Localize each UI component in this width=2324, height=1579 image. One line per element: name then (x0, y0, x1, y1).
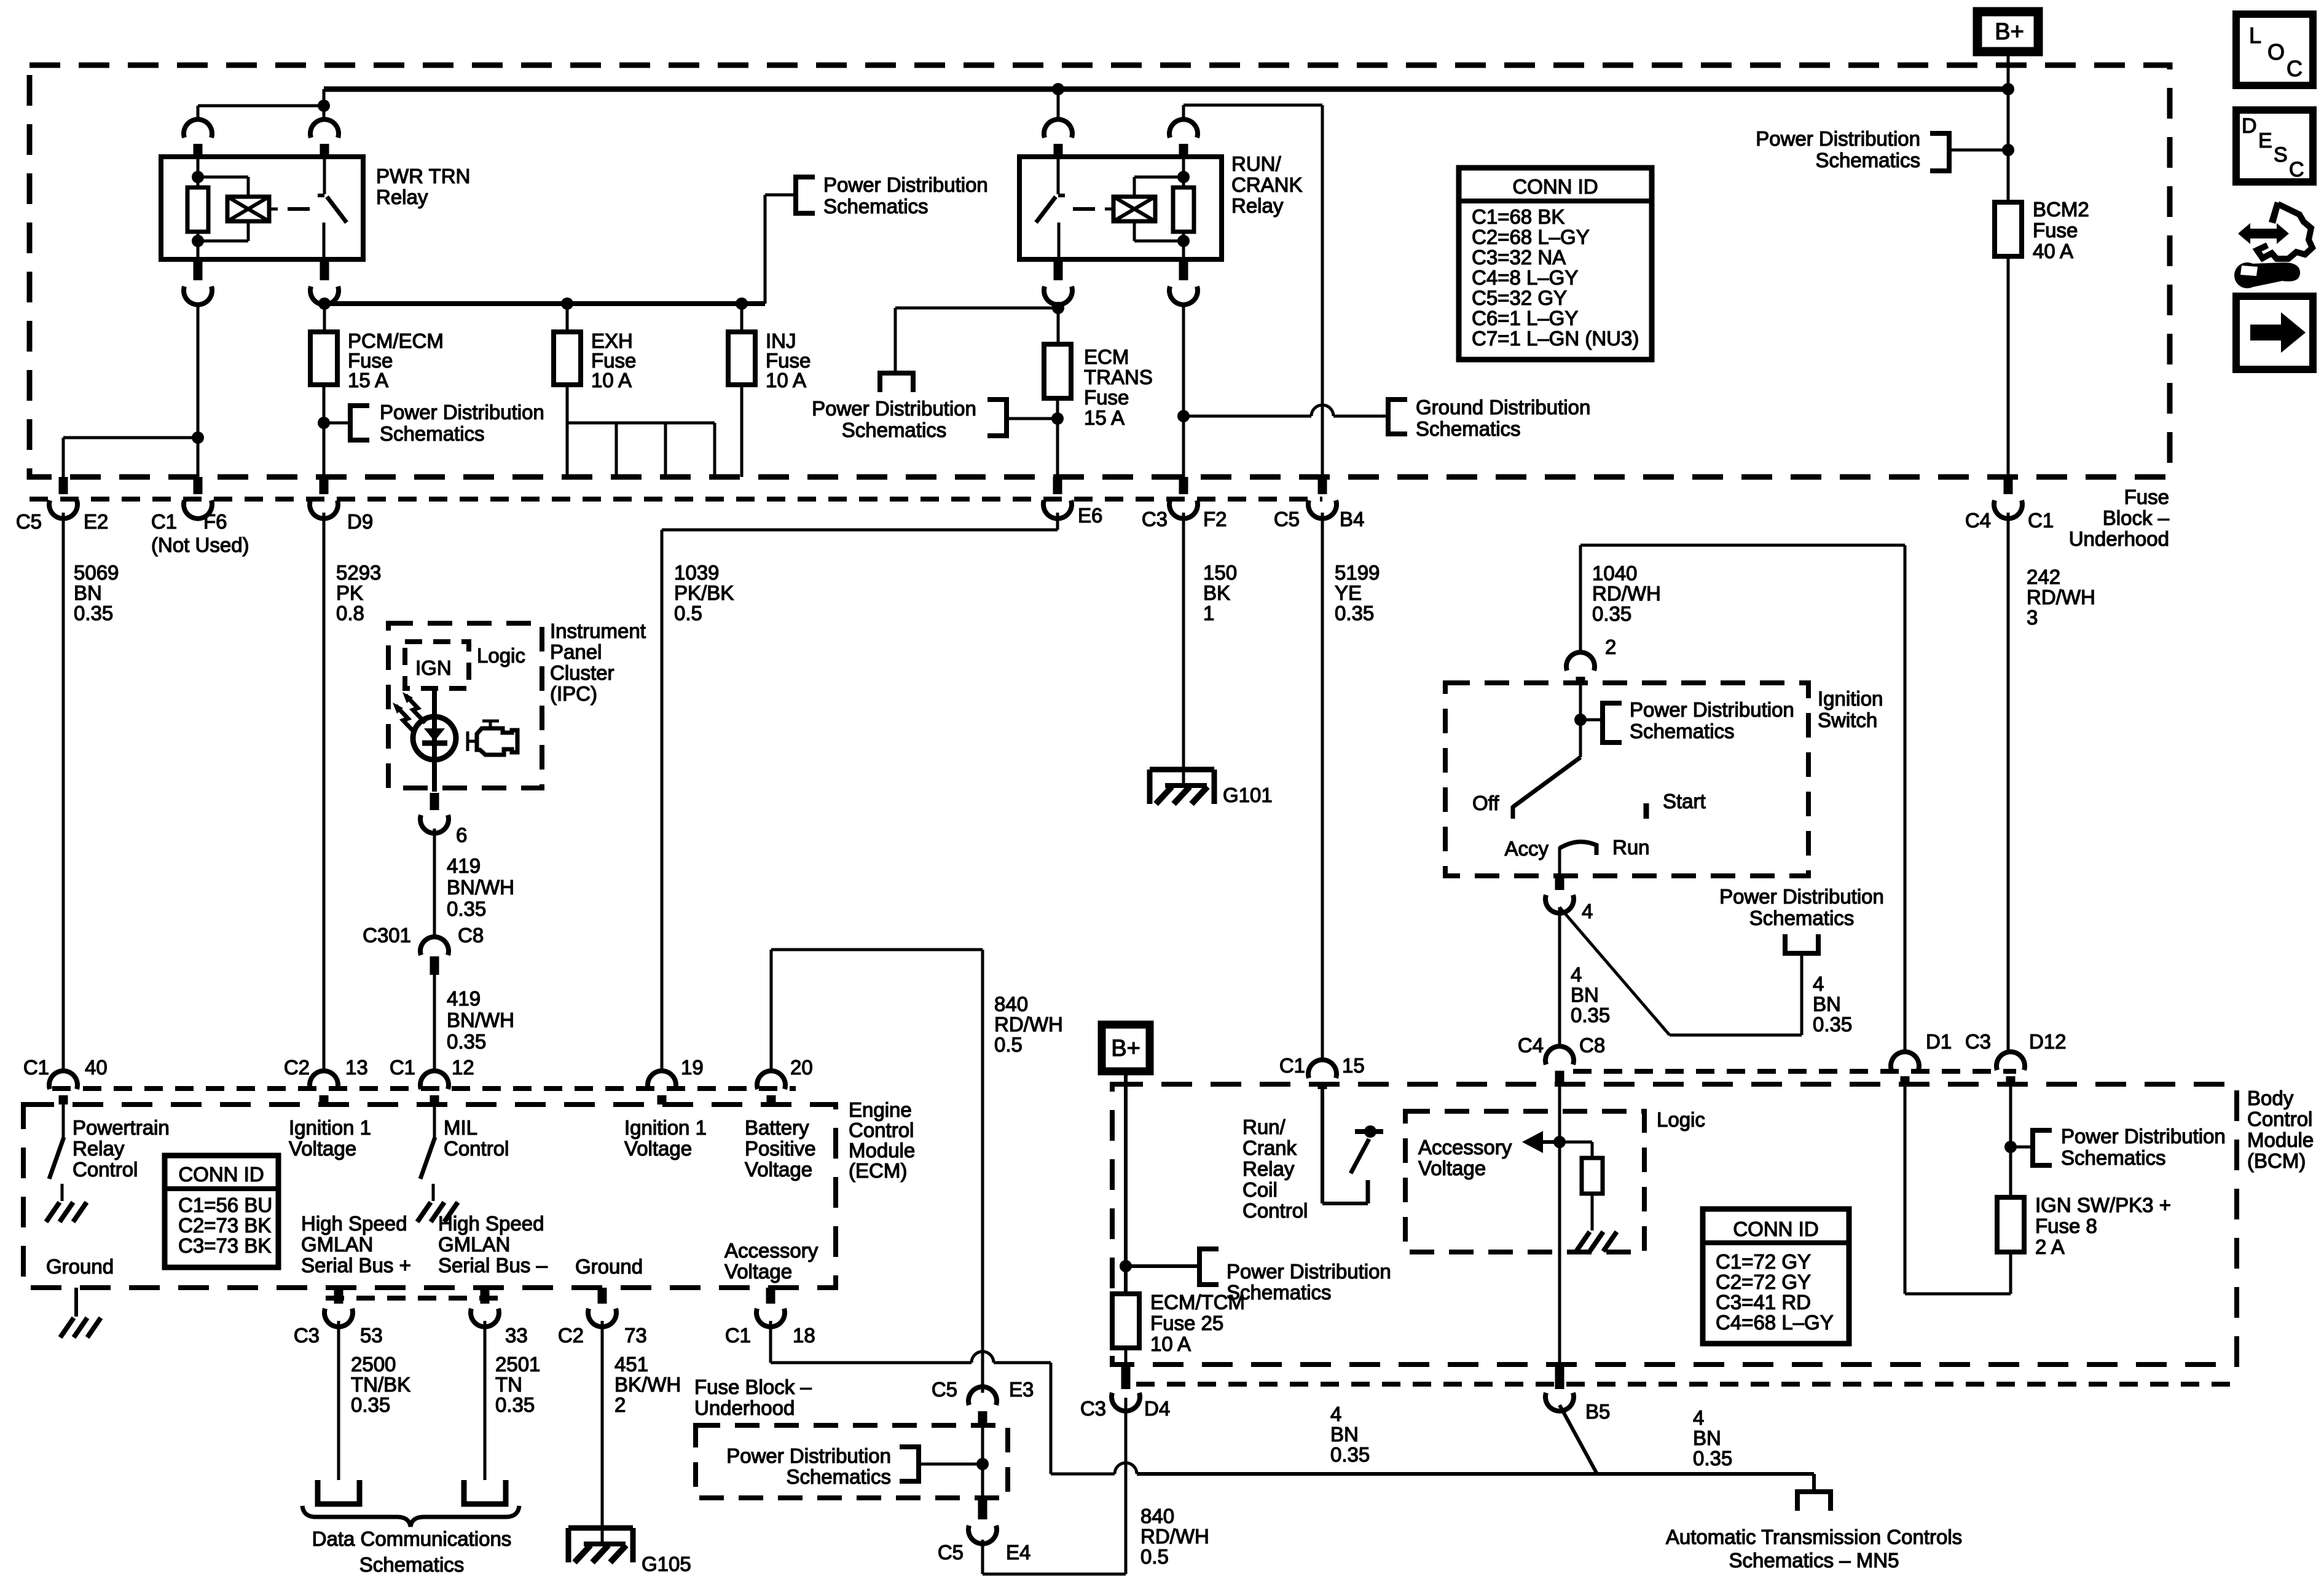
svg-text:Data Communications: Data Communications (312, 1527, 512, 1550)
svg-text:Schematics: Schematics (1416, 417, 1521, 440)
wire INJ fuse to block edge (740, 385, 744, 477)
svg-text:BN: BN (1571, 983, 1599, 1006)
fuse BCM2 40A (1995, 202, 2022, 256)
svg-text:C3=73 BK: C3=73 BK (178, 1234, 271, 1257)
svg-text:Automatic Transmission Control: Automatic Transmission Controls (1666, 1526, 1962, 1548)
svg-text:Ignition 1: Ignition 1 (289, 1116, 371, 1139)
svg-text:Ground: Ground (575, 1255, 643, 1278)
connector C5 E4 (978, 1498, 987, 1519)
wire 5069 BN 0.35 (62, 513, 65, 1069)
svg-text:C2: C2 (284, 1056, 310, 1079)
svg-text:C5=32 GY: C5=32 GY (1472, 286, 1567, 309)
svg-text:2: 2 (1605, 636, 1616, 658)
switch ignition rotor blade (1513, 757, 1580, 807)
terminal (serial bus -) (464, 1480, 506, 1504)
wire accessory voltage through BCM (1558, 1084, 1561, 1367)
svg-text:CONN ID: CONN ID (178, 1163, 264, 1186)
module Instrument Panel Cluster dashed box (388, 623, 542, 788)
svg-text:C3=32 NA: C3=32 NA (1472, 246, 1566, 269)
connector C4 C8 (1545, 1046, 1574, 1065)
wire elbow to PWR TRN relay coil pin (198, 104, 324, 108)
svg-text:0.35: 0.35 (1571, 1004, 1610, 1026)
svg-text:1040: 1040 (1592, 562, 1637, 585)
svg-text:Positive: Positive (745, 1137, 816, 1160)
svg-text:2500: 2500 (351, 1353, 396, 1376)
wire 419 BN/WH 0.35 lower (433, 974, 436, 1071)
svg-text:C1: C1 (151, 510, 177, 533)
svg-text:4: 4 (1571, 963, 1582, 986)
svg-text:Control: Control (73, 1158, 138, 1181)
node EXH fuse tap (561, 297, 573, 310)
ground G105 (568, 1526, 633, 1531)
wire elbow to power distribution callout 1 (764, 195, 767, 304)
wire 5199 YE 0.35 (1321, 513, 1324, 1061)
svg-text:Power Distribution: Power Distribution (812, 397, 976, 420)
connector RUN/CRANK pin top-left (1044, 119, 1072, 138)
svg-text:C8: C8 (1579, 1034, 1605, 1057)
svg-text:2: 2 (614, 1393, 626, 1416)
svg-text:73: 73 (624, 1324, 647, 1347)
svg-text:D: D (2242, 114, 2257, 138)
svg-text:0.35: 0.35 (1592, 602, 1631, 625)
wire INJ fuse drop (740, 304, 744, 332)
wire coil lead RUN/CRANK (1105, 208, 1113, 211)
svg-text:2 A: 2 A (2035, 1235, 2065, 1258)
wire to automatic transmission callout (1812, 1474, 1816, 1492)
wire to power distribution callout (below RUN/CRANK) (895, 307, 1058, 310)
ground G101 (1150, 767, 1214, 773)
svg-text:C4=8 L–GY: C4=8 L–GY (1472, 266, 1578, 289)
brace data communications (302, 1506, 519, 1527)
svg-text:C1: C1 (23, 1056, 49, 1079)
relay PWR TRN box (161, 157, 363, 259)
connector pin 20 (757, 1071, 785, 1089)
icon arrow box (2236, 296, 2313, 369)
svg-text:Control: Control (1242, 1199, 1308, 1222)
module Engine Control Module dashed box (23, 1105, 836, 1288)
svg-text:Underhood: Underhood (2069, 527, 2169, 550)
wire B+ bus (324, 87, 2008, 92)
connector face dashes ECM top (52, 1086, 796, 1091)
svg-text:Relay: Relay (1231, 194, 1284, 217)
svg-text:Power Distribution: Power Distribution (1719, 885, 1884, 908)
connector 2 (ignition switch) (1566, 652, 1595, 671)
terminal (serial bus +) (318, 1480, 359, 1504)
svg-text:BN/WH: BN/WH (447, 876, 514, 899)
svg-text:C4: C4 (1518, 1034, 1544, 1057)
module Ignition Switch dashed box (1445, 683, 1808, 876)
callout bracket power distribution 1 (793, 175, 798, 216)
svg-text:CONN ID: CONN ID (1512, 175, 1598, 198)
svg-text:GMLAN: GMLAN (438, 1233, 510, 1256)
connector C3 53 (334, 1288, 343, 1304)
wire fuse 25 to D4 (1125, 1348, 1128, 1367)
svg-text:Engine: Engine (849, 1098, 912, 1121)
svg-text:0.35: 0.35 (447, 897, 486, 920)
wire RUN/CRANK coil ground side (1182, 304, 1185, 477)
svg-text:C2=73 BK: C2=73 BK (178, 1214, 271, 1237)
svg-text:BK: BK (1203, 581, 1230, 604)
svg-text:Accessory: Accessory (724, 1239, 819, 1262)
svg-text:D12: D12 (2029, 1030, 2067, 1053)
svg-text:(ECM): (ECM) (849, 1159, 907, 1182)
svg-text:4: 4 (1582, 900, 1593, 923)
svg-text:C1: C1 (1279, 1054, 1305, 1077)
fuse block underhood dashed outline (29, 65, 2170, 477)
svg-text:E2: E2 (84, 510, 108, 533)
svg-text:Relay: Relay (73, 1137, 125, 1160)
switch run/crank coil driver (1351, 1139, 1369, 1173)
wire ECM TRANS fuse to E6 (1056, 398, 1059, 477)
callout bracket power distribution (under PCM/ECM fuse) (324, 422, 350, 425)
svg-text:0.5: 0.5 (1140, 1545, 1169, 1568)
fuse ECM TRANS 15A (1044, 344, 1071, 398)
wire 419 BN/WH 0.35 upper (433, 829, 436, 939)
svg-text:B+: B+ (1995, 19, 2024, 45)
svg-text:Run/: Run/ (1242, 1116, 1286, 1138)
wire fuse feed bus (324, 301, 765, 306)
svg-text:RD/WH: RD/WH (1592, 582, 1661, 605)
svg-text:5069: 5069 (74, 561, 119, 584)
svg-text:840: 840 (994, 993, 1028, 1015)
svg-text:33: 33 (505, 1324, 528, 1347)
node B+ bus to PWR TRN relay feed (323, 89, 326, 121)
svg-text:Power Distribution: Power Distribution (1756, 127, 1920, 150)
svg-text:C2=68 L–GY: C2=68 L–GY (1472, 226, 1590, 248)
dashed actuator link PWR TRN (288, 207, 310, 211)
svg-text:0.35: 0.35 (1693, 1447, 1732, 1470)
svg-text:Control: Control (2247, 1108, 2312, 1130)
wire PWR TRN coil loop (198, 176, 248, 179)
connector C4 C1 (fuse block right) (2004, 477, 2013, 494)
svg-text:IGN: IGN (415, 656, 452, 679)
svg-text:15: 15 (1342, 1054, 1365, 1077)
svg-text:4: 4 (1330, 1403, 1341, 1425)
svg-text:Schematics: Schematics (380, 422, 485, 445)
svg-text:C3: C3 (294, 1324, 320, 1347)
svg-text:Fuse 8: Fuse 8 (2035, 1215, 2097, 1237)
wire coil lead (269, 208, 278, 211)
svg-text:BN/WH: BN/WH (447, 1009, 514, 1031)
svg-text:2501: 2501 (495, 1353, 540, 1376)
connector 33 (481, 1288, 490, 1304)
arrow accessory voltage (1542, 1140, 1560, 1144)
callout bracket ground distribution (1386, 397, 1391, 436)
svg-text:BN: BN (1813, 993, 1841, 1015)
resistor BCM accessory pulldown (1560, 1141, 1592, 1144)
wire RUN/CRANK switched output (1057, 304, 1060, 344)
svg-text:Ground Distribution: Ground Distribution (1416, 396, 1590, 419)
svg-text:15 A: 15 A (348, 369, 388, 392)
connector 6 (IPC) (430, 793, 439, 810)
svg-text:C1: C1 (725, 1324, 751, 1347)
connector pin 19 (648, 1071, 676, 1089)
svg-text:Module: Module (2247, 1128, 2314, 1151)
node INJ fuse tap (736, 297, 748, 310)
svg-text:Start: Start (1663, 790, 1706, 813)
svg-text:5293: 5293 (336, 561, 381, 584)
svg-text:BN: BN (74, 581, 102, 604)
table CONN ID (fuse block) (1459, 168, 1652, 360)
wire 4 BN to C8 (1558, 907, 1561, 1047)
svg-text:Off: Off (1472, 792, 1499, 814)
svg-text:18: 18 (793, 1324, 815, 1347)
callout bracket power distribution (lower fuse block) (919, 1463, 983, 1466)
hop over 840 wire (972, 1352, 994, 1363)
svg-text:Relay: Relay (1242, 1157, 1295, 1180)
svg-text:GMLAN: GMLAN (301, 1233, 373, 1256)
svg-text:BN: BN (1330, 1423, 1359, 1446)
svg-text:Power Distribution: Power Distribution (2061, 1125, 2226, 1148)
wire 2500 TN/BK 0.35 (337, 1321, 340, 1480)
wire ECM case ground (74, 1288, 78, 1317)
svg-text:0.35: 0.35 (1335, 602, 1374, 624)
svg-text:C1=72 GY: C1=72 GY (1716, 1250, 1811, 1273)
svg-text:419: 419 (447, 987, 481, 1010)
svg-text:Serial Bus –: Serial Bus – (438, 1254, 548, 1277)
svg-text:1039: 1039 (674, 561, 719, 584)
svg-text:C3: C3 (1142, 508, 1168, 530)
svg-text:C1: C1 (390, 1056, 415, 1079)
svg-text:Voltage: Voltage (1418, 1157, 1486, 1179)
switch RUN/CRANK relay contact (1057, 157, 1060, 194)
svg-text:840: 840 (1140, 1505, 1174, 1527)
wire D12 to fuse 8 (2009, 1084, 2012, 1197)
svg-text:Fuse: Fuse (1084, 386, 1129, 409)
wire E3 to E4 inside lower fuse block (981, 1425, 984, 1498)
connector C1 40 (49, 1071, 77, 1089)
ground (BCM accessory resistor) (1576, 1232, 1590, 1251)
svg-text:40: 40 (85, 1056, 108, 1079)
svg-text:Powertrain: Powertrain (73, 1116, 170, 1139)
svg-text:C5: C5 (938, 1541, 964, 1564)
svg-text:O: O (2267, 39, 2285, 65)
svg-text:S: S (2274, 143, 2288, 167)
svg-text:0.35: 0.35 (447, 1030, 486, 1053)
resistor RUN/CRANK relay internal (1182, 157, 1185, 187)
connector C1 18 (766, 1288, 775, 1304)
wire BCM2 fuse to C1 (2007, 256, 2010, 477)
svg-text:RUN/: RUN/ (1231, 152, 1281, 175)
wire 150 BK 1 (1182, 513, 1185, 786)
svg-text:CONN ID: CONN ID (1733, 1218, 1818, 1240)
connector face dashes BCM top (1573, 1069, 2016, 1074)
svg-text:Crank: Crank (1242, 1136, 1297, 1159)
svg-text:0.35: 0.35 (351, 1393, 390, 1416)
connector RUN/CRANK pin bottom-left (1054, 259, 1063, 280)
svg-text:C1=56 BU: C1=56 BU (178, 1194, 272, 1216)
connector RUN/CRANK pin top-right (1169, 119, 1198, 138)
svg-text:0.35: 0.35 (1330, 1443, 1370, 1466)
callout bracket power distribution (below RUN/CRANK) (877, 371, 916, 376)
svg-text:Voltage: Voltage (724, 1260, 792, 1283)
svg-text:C2=72 GY: C2=72 GY (1716, 1270, 1811, 1293)
svg-text:C1=68 BK: C1=68 BK (1472, 205, 1564, 228)
svg-text:PK: PK (336, 581, 363, 604)
svg-text:E4: E4 (1006, 1541, 1030, 1564)
svg-text:6: 6 (456, 824, 467, 846)
svg-text:ECM/TCM: ECM/TCM (1150, 1291, 1245, 1313)
ground (powertrain relay driver) (46, 1202, 60, 1222)
contact wiper Accy-Run (1560, 842, 1596, 855)
svg-text:40 A: 40 A (2033, 240, 2073, 262)
svg-text:C3: C3 (1965, 1030, 1991, 1053)
svg-text:Panel: Panel (550, 640, 602, 663)
wire D4 down (1125, 1405, 1128, 1474)
svg-text:0.35: 0.35 (1813, 1013, 1852, 1036)
svg-text:C301: C301 (363, 924, 411, 947)
connector C1 F6 (not used) (194, 477, 203, 494)
callout bracket power distribution (B+ feed) (1949, 149, 2008, 152)
wire B+ to BCM2 fuse (2007, 52, 2010, 202)
logic box IGN (405, 642, 469, 688)
svg-text:(IPC): (IPC) (550, 682, 597, 705)
svg-text:Schematics – MN5: Schematics – MN5 (1729, 1549, 1899, 1572)
svg-text:20: 20 (790, 1056, 813, 1079)
svg-text:Ground: Ground (46, 1255, 114, 1278)
svg-text:Power Distribution: Power Distribution (726, 1444, 891, 1467)
wire 2501 TN 0.35 (484, 1321, 487, 1480)
switch MIL control driver (433, 1105, 436, 1137)
svg-text:C3: C3 (1080, 1397, 1106, 1420)
relay RUN/CRANK box (1019, 157, 1222, 259)
svg-text:Power Distribution: Power Distribution (380, 401, 544, 423)
svg-text:0.35: 0.35 (74, 602, 113, 624)
module Body Control Module dashed box (1112, 1084, 2237, 1364)
coil solenoid PWR TRN relay (227, 197, 269, 221)
svg-text:Fuse: Fuse (2124, 486, 2169, 508)
svg-text:Body: Body (2247, 1087, 2294, 1109)
svg-text:C7=1 L–GN (NU3): C7=1 L–GN (NU3) (1472, 327, 1639, 350)
svg-text:CRANK: CRANK (1231, 173, 1303, 196)
svg-text:Run: Run (1612, 836, 1650, 859)
svg-text:High Speed: High Speed (438, 1212, 544, 1235)
svg-text:MIL: MIL (444, 1116, 477, 1139)
svg-text:B4: B4 (1340, 508, 1364, 530)
wire 5293 PK 0.8 (323, 513, 326, 1069)
indicator lamp LED (MIL) (413, 717, 456, 760)
svg-text:Power Distribution: Power Distribution (1227, 1260, 1391, 1283)
svg-text:TN/BK: TN/BK (351, 1373, 410, 1396)
svg-text:F6: F6 (203, 510, 227, 533)
svg-text:Control: Control (849, 1119, 914, 1141)
connector PWR TRN relay pin bottom-left (194, 259, 203, 280)
wire 840 RD/WH E4 to D4 (981, 1540, 984, 1574)
wire D1 to fuse 8 loop (1904, 1084, 1907, 1294)
svg-text:Schematics: Schematics (1749, 907, 1855, 929)
table CONN ID (ECM) (165, 1156, 278, 1267)
svg-text:RD/WH: RD/WH (994, 1013, 1063, 1036)
connector C5 E3 (968, 1387, 997, 1405)
svg-text:4: 4 (1693, 1406, 1704, 1429)
icon wrench and outline (2269, 202, 2281, 224)
connector C1 12 (420, 1071, 449, 1089)
svg-text:B5: B5 (1585, 1400, 1610, 1423)
dashed actuator link RUN/CRANK (1073, 207, 1095, 211)
connector C3 D12 (1996, 1052, 2025, 1070)
svg-text:C5: C5 (1274, 508, 1300, 530)
svg-text:Ignition: Ignition (1818, 687, 1883, 710)
relay PWR TRN coil wire (197, 157, 200, 187)
ground (MIL driver) (417, 1202, 431, 1222)
svg-text:0.5: 0.5 (674, 602, 702, 624)
svg-text:C5: C5 (16, 510, 42, 533)
svg-text:Block –: Block – (2103, 506, 2170, 529)
svg-text:150: 150 (1203, 561, 1237, 584)
connector B5 (1555, 1367, 1564, 1389)
svg-text:10 A: 10 A (1150, 1333, 1191, 1355)
fuse INJ 10A (728, 332, 755, 385)
svg-text:Voltage: Voltage (745, 1158, 812, 1181)
connector 4 (ignition switch output) (1555, 876, 1564, 890)
svg-text:D1: D1 (1926, 1030, 1952, 1053)
svg-text:YE: YE (1335, 581, 1362, 604)
svg-text:E3: E3 (1009, 1378, 1034, 1401)
wire 4 BN from pin 18 (accessory voltage) (769, 1321, 772, 1363)
svg-text:(Not Used): (Not Used) (151, 534, 249, 556)
svg-text:15 A: 15 A (1084, 406, 1125, 429)
svg-text:PWR TRN: PWR TRN (376, 165, 470, 187)
connector PWR TRN relay pin top-right (310, 119, 339, 138)
power symbol B+ (BCM feed) (1102, 1025, 1150, 1071)
coil solenoid RUN/CRANK relay (1113, 197, 1155, 221)
fuse ECM/TCM 25 10A (1112, 1294, 1139, 1348)
svg-text:0.8: 0.8 (336, 602, 364, 624)
wire ignition switch common (1579, 683, 1582, 757)
svg-text:Ignition 1: Ignition 1 (624, 1116, 707, 1139)
svg-text:C6=1 L–GY: C6=1 L–GY (1472, 307, 1578, 329)
svg-text:Schematics: Schematics (1630, 720, 1735, 742)
wire 1039 PK/BK 0.5 (1056, 513, 1059, 530)
svg-text:Fuse: Fuse (2033, 219, 2078, 242)
svg-text:13: 13 (345, 1056, 368, 1079)
svg-text:5199: 5199 (1335, 561, 1380, 584)
wire PWR TRN relay output to PCM/ECM fuse (323, 304, 326, 332)
svg-text:3: 3 (2027, 606, 2038, 629)
fuse PCM/ECM 15A (310, 332, 337, 385)
svg-text:BK/WH: BK/WH (614, 1373, 681, 1396)
icon DESC box (2236, 110, 2313, 182)
svg-text:Voltage: Voltage (289, 1137, 356, 1160)
svg-text:ECM: ECM (1084, 345, 1129, 368)
svg-text:Logic: Logic (477, 644, 525, 667)
wire RUN/CRANK coil feed elbow (1182, 105, 1185, 121)
svg-text:Fuse 25: Fuse 25 (1150, 1312, 1223, 1334)
callout bracket automatic transmission (1795, 1489, 1833, 1494)
svg-text:D4: D4 (1144, 1397, 1170, 1420)
wire RUN/CRANK coil loop (1134, 176, 1184, 179)
svg-text:RD/WH: RD/WH (2027, 586, 2095, 608)
svg-text:Schematics: Schematics (786, 1465, 891, 1488)
fuse IGN SW/PK3 Fuse 8 2A (1997, 1197, 2024, 1252)
connector D1 (1891, 1052, 1919, 1070)
svg-text:Schematics: Schematics (2061, 1146, 2166, 1169)
svg-text:G105: G105 (642, 1553, 691, 1575)
wire EXH fuse splice comb (566, 385, 569, 423)
svg-text:4: 4 (1813, 972, 1824, 995)
svg-text:Logic: Logic (1657, 1108, 1705, 1131)
svg-text:C5: C5 (932, 1378, 957, 1401)
logic dashed box (BCM) (1405, 1111, 1644, 1252)
connector D9 (320, 477, 329, 494)
svg-text:IGN SW/PK3 +: IGN SW/PK3 + (2035, 1194, 2171, 1216)
callout bracket power distribution (ECM/TCM fuse) (1126, 1264, 1199, 1268)
svg-text:242: 242 (2027, 565, 2060, 588)
wire run/crank relay coil control (1321, 1089, 1324, 1203)
switch powertrain relay control driver (62, 1105, 65, 1137)
svg-text:Cluster: Cluster (550, 661, 614, 684)
hop over 5199 wire (1311, 405, 1333, 416)
